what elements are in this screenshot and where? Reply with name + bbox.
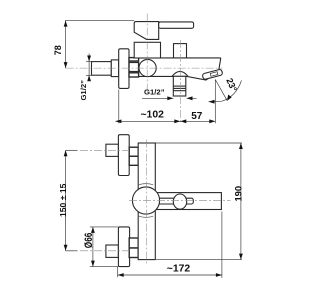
plan arrowheads <box>64 143 243 277</box>
arrow G12 leader left <box>167 96 173 100</box>
arrow angle at slant ray <box>227 95 232 101</box>
arrow 102 left <box>115 120 122 124</box>
arrow angle at vertical <box>209 100 215 104</box>
body tube plan <box>152 193 221 210</box>
dim G12 left line <box>88 54 90 81</box>
svg-text:G1/2”: G1/2” <box>144 88 165 97</box>
thread line 2 <box>173 87 186 89</box>
body sphere <box>139 59 156 76</box>
centerline bottom connection <box>66 250 128 252</box>
sphere-cylinder fillet arc bottom <box>139 216 153 217</box>
diverter knob plan <box>173 194 186 209</box>
bottom wall stub <box>106 245 119 257</box>
supply pipe union section <box>111 60 118 77</box>
body right and bottom edges <box>139 58 221 80</box>
svg-text:~102: ~102 <box>140 110 164 121</box>
top flange plan <box>118 135 129 176</box>
arrow G12 leader right <box>187 96 193 100</box>
dim G12 left tick top <box>86 61 93 63</box>
arrow 190 top <box>239 143 243 149</box>
dim 78 tick top <box>65 20 134 22</box>
arrow 57 right <box>209 119 215 123</box>
arrow 78 top <box>64 21 68 27</box>
arrow 78 bottom <box>64 62 68 68</box>
supply pipe thin section <box>92 62 112 76</box>
top nut plan band1 <box>129 147 138 156</box>
thread line 1 <box>173 85 186 87</box>
arrow 150 top <box>64 150 68 156</box>
arrow G12 left top <box>87 56 91 62</box>
cartridge housing <box>134 42 160 58</box>
wall flange side view <box>119 49 129 89</box>
diverter knob <box>174 44 187 58</box>
hex nut band top <box>129 58 139 61</box>
svg-text:~172: ~172 <box>167 264 191 275</box>
dim 78 line <box>65 21 67 69</box>
svg-text:190: 190 <box>232 186 243 202</box>
dim O66 line <box>92 227 94 267</box>
bottom flange plan <box>118 227 129 267</box>
dim 102+57 line <box>119 120 216 122</box>
angle slant ray <box>215 80 227 101</box>
side arrowheads <box>64 21 232 124</box>
centerline plan horizontal axis <box>129 199 231 201</box>
body bar plan <box>138 143 155 260</box>
dim G12 left tick bottom <box>86 74 93 76</box>
extension wall plane <box>118 90 120 124</box>
centerline cartridge axis <box>146 14 148 91</box>
dim 190 line <box>240 143 242 260</box>
handle cap <box>134 22 159 40</box>
arrow O66 top <box>91 227 95 233</box>
sphere-cylinder fillet arc top <box>139 184 153 185</box>
dim 150 line <box>65 150 67 251</box>
spout pill <box>202 69 223 80</box>
dim 150 tick top <box>66 149 77 151</box>
arrow 190 bottom <box>239 254 243 260</box>
centerline outlet pipe axis <box>179 40 181 124</box>
centerline plan vertical axis <box>146 140 148 264</box>
centerline top connection <box>66 149 128 151</box>
dim 172 extension left <box>117 267 119 278</box>
aerator slot <box>210 72 218 77</box>
svg-text:150 ± 15: 150 ± 15 <box>58 183 68 217</box>
top nut plan band2 <box>129 156 138 165</box>
dim 190 extension top <box>155 142 242 144</box>
leader G12 top left segment <box>142 97 173 99</box>
dim 172 line <box>118 274 222 276</box>
body tube side view fill <box>148 58 221 80</box>
lever bar <box>159 22 194 28</box>
extension spout tip / angle vertical ray <box>214 80 216 124</box>
bottom nut plan band1 <box>129 238 138 248</box>
dim 150 tick bottom <box>66 250 77 252</box>
arrow 102 right of pair <box>174 119 180 123</box>
svg-text:Ø66: Ø66 <box>83 233 95 249</box>
dim 172 extension right <box>221 212 223 278</box>
arrow G12 left bottom <box>87 75 91 81</box>
dim O66 tick bottom <box>90 266 119 268</box>
leader G12 top right segment <box>187 97 197 99</box>
body top edge <box>152 57 221 59</box>
hex nut band bottom <box>129 73 139 77</box>
arrow 172 right <box>216 273 222 277</box>
angle arc <box>209 81 242 102</box>
shower outlet pipe <box>173 76 186 96</box>
svg-text:78: 78 <box>53 45 63 55</box>
arrow O66 bottom <box>91 261 95 267</box>
svg-text:G1/2”: G1/2” <box>79 80 88 101</box>
centerline side main axis <box>66 67 223 69</box>
svg-text:57: 57 <box>191 111 203 122</box>
dim 190 extension bottom <box>153 259 242 261</box>
dome boss arc under body <box>172 71 188 76</box>
cap circle plan <box>132 187 159 214</box>
thread line 3 <box>173 90 186 92</box>
bottom nut plan band2 <box>129 248 138 258</box>
dim O66 tick top <box>90 226 119 228</box>
top wall stub <box>106 144 119 156</box>
arrow 172 left <box>118 273 124 277</box>
hex nut band middle <box>129 62 139 71</box>
arrow 150 bottom <box>64 245 68 251</box>
lever plan <box>156 198 193 204</box>
arrow 57 left of pair <box>180 119 186 123</box>
